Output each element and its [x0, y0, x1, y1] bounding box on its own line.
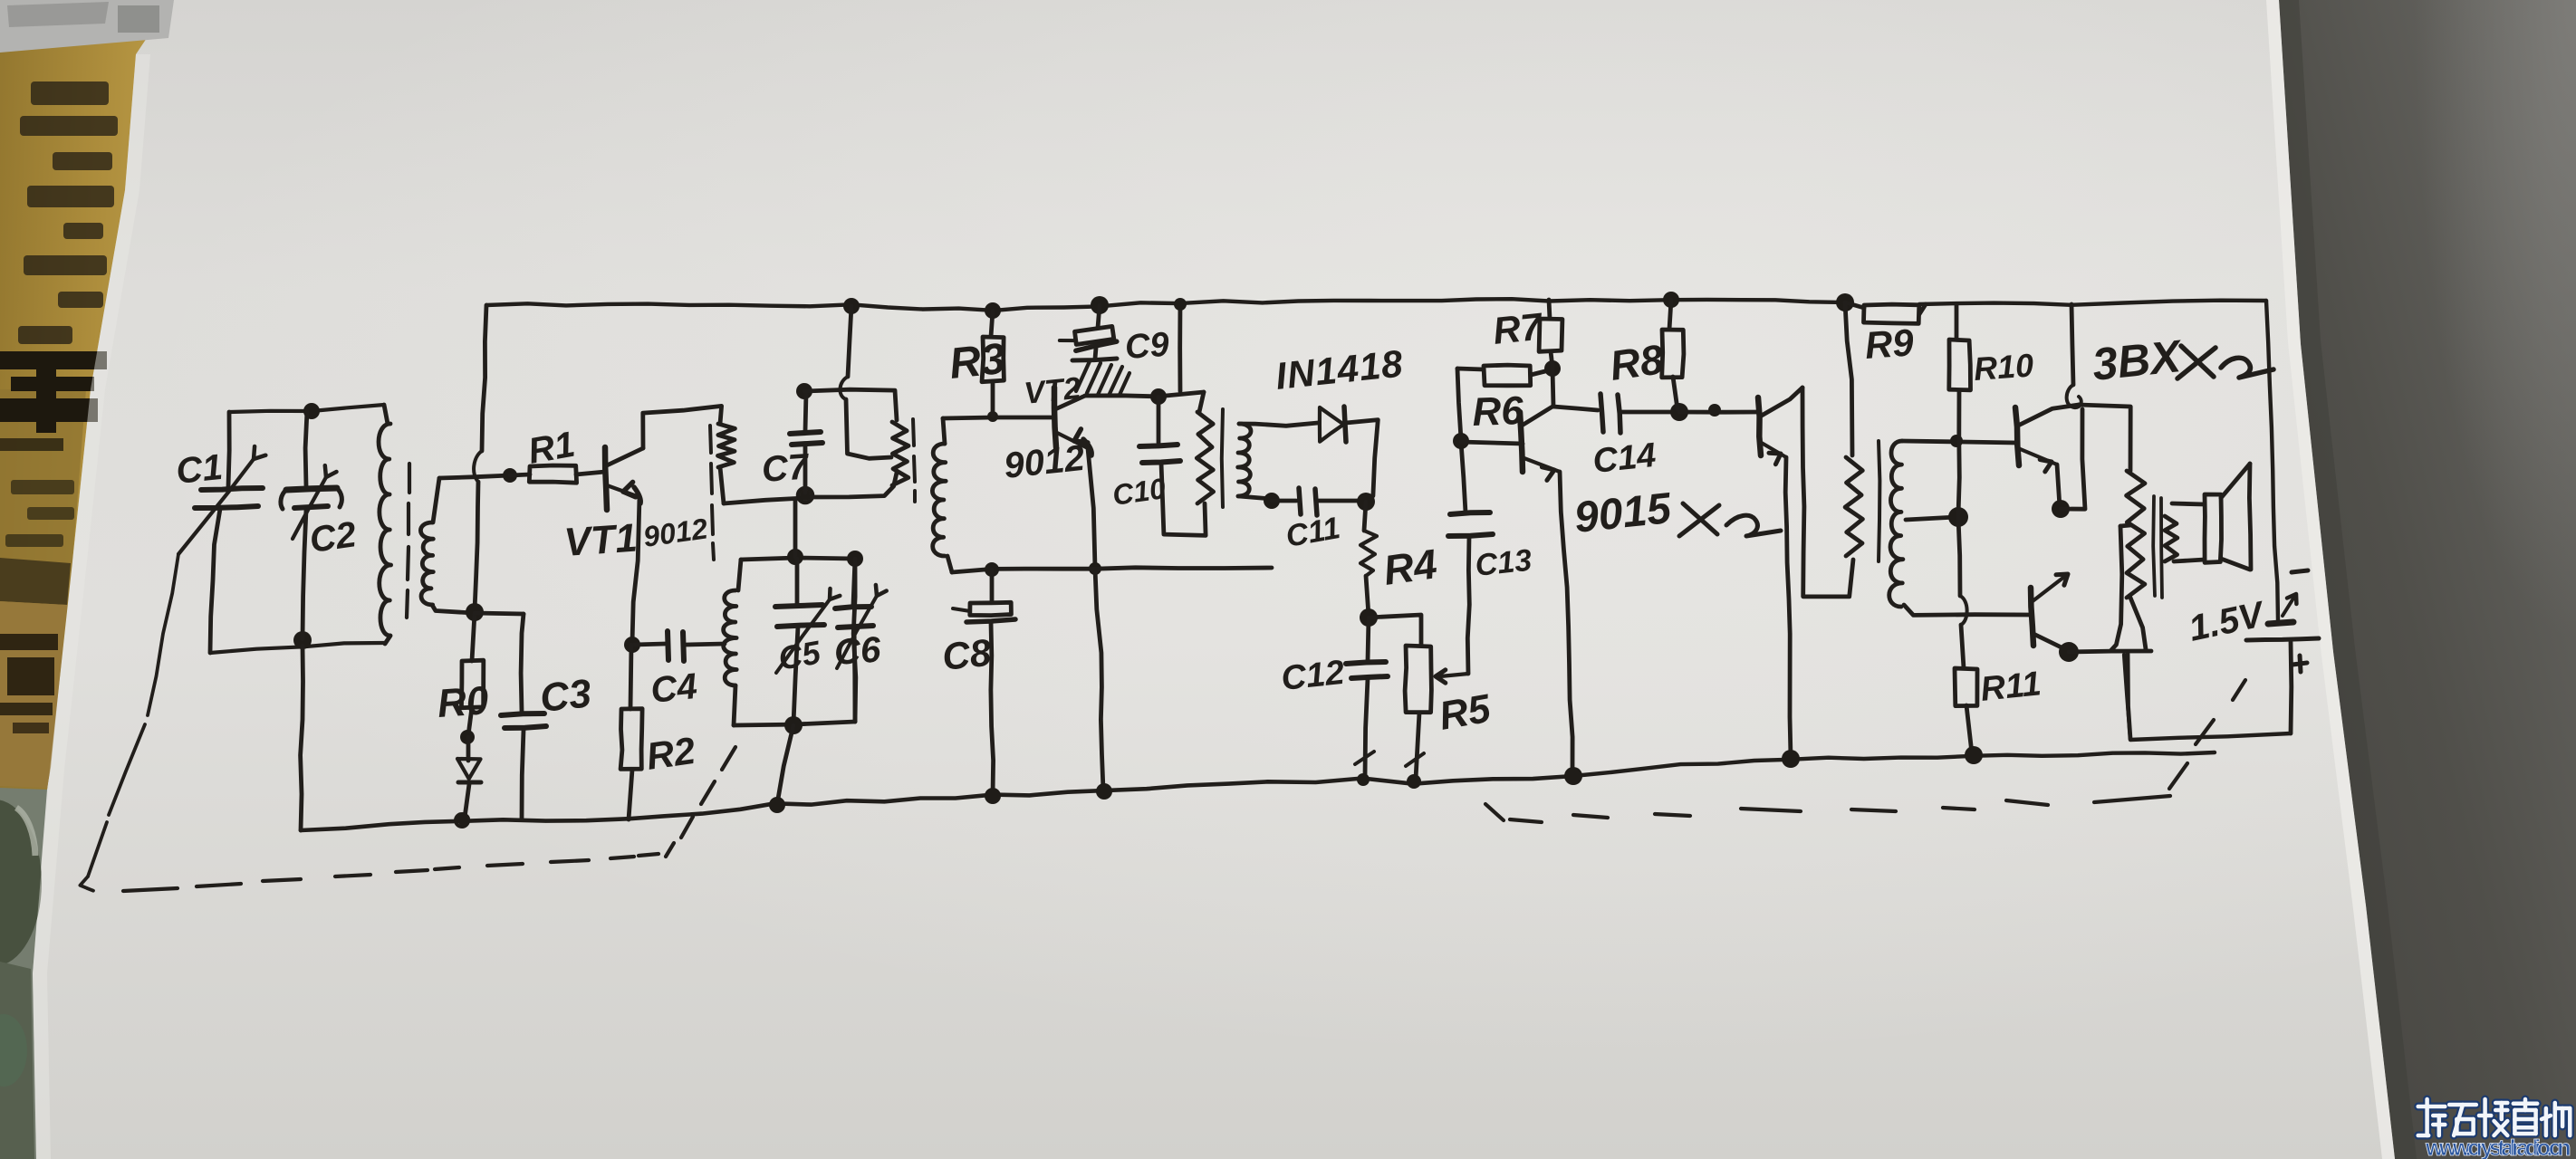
label C5: [775, 633, 823, 677]
svg-text:VT1: VT1: [562, 515, 639, 565]
resistor R6 and base network: [1453, 360, 1561, 449]
potentiometer R5: [1405, 646, 1431, 789]
module boundary diagonal dashes (left of oscillator): [681, 747, 735, 838]
inductor T3 primary (zigzag): [1197, 392, 1213, 503]
svg-text:R6: R6: [1472, 388, 1524, 435]
wire box bottom to ground bus: [769, 725, 793, 813]
capacitor C7: [790, 383, 822, 493]
wire Q4 emitter to ground: [1782, 457, 1800, 768]
transistor Q4 driver (9015): [1758, 388, 1802, 465]
label C7: [761, 446, 812, 490]
capacitor C4: [634, 631, 725, 661]
svg-text:R5: R5: [1436, 686, 1494, 739]
resistor R2: [620, 645, 642, 819]
wire T3 secondary top to diode: [1239, 423, 1318, 426]
diode D0: [456, 737, 481, 827]
wire push-pull bottom node: [2059, 642, 2151, 662]
wire T4 center tap: [1906, 507, 1968, 527]
wire T3 secondary bottom: [1239, 493, 1280, 509]
wire right rail down to battery: [2266, 301, 2278, 621]
resistor R1: [439, 465, 605, 483]
ground symbol for C9: [1072, 359, 1129, 396]
svg-text:3BX: 3BX: [2090, 330, 2185, 390]
capacitor C5 (variable trimmer): [775, 559, 840, 723]
label VT2: [1023, 371, 1082, 411]
inductor T1 collector winding (zigzag): [718, 424, 735, 503]
inductor L1a antenna coil primary: [379, 424, 391, 644]
capacitor C8 (electrolytic): [953, 570, 1015, 804]
svg-text:VT2: VT2: [1023, 371, 1082, 411]
svg-text:C6: C6: [833, 629, 883, 673]
inductor T2 secondary winding: [932, 444, 946, 556]
wire VT2 collector line: [1085, 388, 1204, 405]
svg-text:R2: R2: [644, 729, 698, 778]
wire C7 box top: [804, 389, 897, 420]
label R9: [1863, 321, 1915, 367]
label C14: [1591, 436, 1658, 481]
label C3: [538, 671, 593, 721]
svg-text:R1: R1: [525, 425, 578, 472]
transformer T1 core (dashed): [407, 464, 409, 618]
wire Q3 emitter to ground: [1560, 472, 1582, 785]
svg-text:C7: C7: [761, 446, 812, 490]
wire battery positive bottom wire: [2130, 733, 2291, 740]
inductor L1b antenna coil secondary: [420, 522, 433, 605]
svg-text:R9: R9: [1863, 321, 1915, 367]
wire center tap down with hop to R11: [1958, 517, 1967, 668]
svg-text:R7: R7: [1491, 304, 1545, 352]
capacitor C10: [1139, 397, 1206, 535]
label 3BXX2: [2090, 330, 2273, 390]
label R2: [644, 729, 698, 778]
wire C1/C2 box bottom: [210, 631, 384, 653]
svg-text:R3: R3: [947, 335, 1008, 388]
resistor R0: [460, 613, 484, 744]
wire secondary top link from R1 wire: [433, 478, 439, 522]
label 9012 of VT1: [641, 512, 710, 553]
resistor R4 (squiggle): [1360, 502, 1378, 627]
wire T4 secondary bottom hook to Q6 base: [1904, 605, 2031, 615]
svg-text:R0: R0: [436, 678, 490, 726]
wire riser from push-pull emitters to battery wire: [2124, 655, 2130, 740]
diode D1 IN1418: [1320, 407, 1378, 501]
capacitor C3: [475, 613, 546, 819]
label R5: [1436, 686, 1494, 739]
wire Q5 collector to T5 top: [2079, 405, 2130, 471]
wire secondary bottom to junction: [432, 605, 474, 613]
wire box bottom-left drop to ground bus: [301, 646, 303, 830]
transistor VT2 (9012): [1054, 388, 1091, 455]
wire T4 secondary top hook to Q5 base: [1902, 435, 2017, 447]
wire bottom node down to battery wire: [2128, 654, 2130, 739]
svg-text:R11: R11: [1979, 665, 2043, 709]
label 1.5V: [2186, 594, 2270, 649]
resistor R7: [1539, 300, 1562, 368]
label 9012 of VT2: [1002, 438, 1086, 486]
resistor R9 (in supply bus): [1836, 293, 1926, 323]
svg-text:R10: R10: [1973, 346, 2035, 388]
wire oscillator box top: [741, 549, 863, 567]
svg-text:www.crystalradio.cn: www.crystalradio.cn: [2425, 1135, 2571, 1159]
label C9: [1124, 326, 1170, 367]
wire R4 to R5 link: [1369, 615, 1421, 646]
inductor T5 primary (zigzag): [2127, 471, 2146, 649]
svg-text:R4: R4: [1380, 540, 1439, 594]
label C6: [833, 629, 883, 673]
transformer T3 core: [1222, 409, 1223, 507]
wiper arrow into R5: [1436, 670, 1468, 683]
wire C7 bottom rail: [724, 473, 897, 503]
wire VT2 base line: [943, 411, 1053, 422]
capacitor C11: [1272, 488, 1375, 515]
svg-text:R8: R8: [1607, 335, 1667, 389]
module boundary dashed line (bottom right): [1485, 680, 2245, 822]
capacitor C14: [1553, 394, 1758, 433]
svg-text:C1: C1: [174, 447, 224, 492]
resistor R8: [1662, 292, 1684, 409]
module boundary dashes (vertical near T1): [710, 426, 714, 560]
wire oscillator box bottom: [734, 716, 855, 734]
wire top supply bus (left section): [486, 299, 1845, 311]
label R4: [1380, 540, 1439, 594]
transistor Q3 (9015): [1520, 369, 1560, 480]
svg-text:C9: C9: [1124, 326, 1170, 367]
inductor T4 primary (zigzag): [1845, 457, 1862, 556]
svg-text:C4: C4: [649, 666, 698, 711]
resistor R3: [982, 302, 1004, 416]
label C4: [649, 666, 698, 711]
capacitor C6 (variable trimmer): [835, 559, 887, 722]
wire bus tap to collector line: [1174, 298, 1187, 391]
label R3: [947, 335, 1008, 388]
svg-text:C12: C12: [1280, 654, 1347, 698]
svg-text:C14: C14: [1591, 436, 1658, 481]
label VT1: [562, 515, 639, 565]
transistor Q5 (3BX output top): [2015, 405, 2079, 472]
inductor T5 secondary (zigzag): [2165, 516, 2177, 561]
wire V+ drop with hop over R1 wire: [466, 305, 486, 621]
inductor T4 secondary (two halves): [1889, 441, 1903, 607]
wire top supply bus (right section after R9): [1919, 301, 2266, 305]
wire bus down to T4 primary: [1845, 302, 1852, 455]
svg-text:C2: C2: [307, 514, 359, 560]
svg-text:9015: 9015: [1572, 484, 1675, 542]
svg-text:C8: C8: [940, 631, 994, 678]
transformer T4 core: [1879, 441, 1879, 561]
capacitor C2 (variable): [281, 411, 341, 639]
wire oscillator box right side: [853, 559, 856, 722]
resistor R11: [1955, 668, 1983, 764]
resistor R10: [1949, 304, 1971, 515]
wire T2 secondary bottom corner: [947, 556, 952, 572]
wire bus tap with hop to oscillator feedback: [840, 298, 891, 458]
transistor VT1 (9012): [605, 447, 643, 510]
wire Q5 emitter down: [2052, 465, 2070, 518]
transistor Q6 (3BX output bottom): [2031, 574, 2068, 650]
wire link up from box to C7 rail: [793, 499, 798, 557]
svg-text:C13: C13: [1474, 543, 1533, 583]
transformer T5 core: [2153, 496, 2162, 598]
label C11: [1283, 511, 1343, 554]
wire bus drop to Q5 collector with curl: [2067, 304, 2081, 407]
label C2: [307, 514, 359, 560]
label C8: [940, 631, 994, 678]
label R7: [1491, 304, 1545, 352]
label IN1418: [1274, 341, 1406, 398]
capacitor C12: [1346, 618, 1388, 786]
wire VT2 emitter down to ground: [1088, 448, 1112, 800]
wire T2 secondary top to VT2 base line: [943, 418, 945, 444]
wire emitter node right and up: [2061, 409, 2085, 509]
wire C1/C2 box top: [230, 403, 384, 419]
wire bottom ground bus right part: [1573, 752, 2215, 776]
capacitor C1 (variable): [178, 412, 265, 653]
wire signal rail y630: [952, 562, 1272, 577]
wire VT1 collector to T1 primary: [643, 406, 722, 448]
svg-text:C5: C5: [775, 633, 823, 677]
inductor T3 secondary: [1238, 424, 1251, 496]
antenna lead-in diagonal: [80, 554, 178, 891]
wire Q4 collector loop to T4 bottom: [1802, 388, 1853, 597]
inductor L2 oscillator coil: [724, 560, 741, 725]
label 9015x2: [1572, 484, 1781, 542]
label R6: [1472, 388, 1524, 435]
label R0: [436, 678, 490, 726]
svg-text:C3: C3: [538, 671, 593, 721]
label R1: [525, 425, 578, 472]
label R10: [1973, 346, 2035, 388]
wire T5 center tap vertical: [2110, 525, 2130, 651]
svg-text:9012: 9012: [1002, 438, 1086, 486]
inductor T1 base winding (zigzag): [892, 422, 908, 485]
wire VT1 emitter down: [624, 497, 640, 653]
label C12: [1280, 654, 1347, 698]
capacitor C13: [1448, 442, 1493, 674]
speaker: [2172, 464, 2251, 570]
label R8: [1607, 335, 1667, 389]
wire corner down to antenna coil: [384, 405, 388, 424]
battery B1 1.5V: [2246, 570, 2319, 733]
label C13: [1474, 543, 1533, 583]
label C1: [174, 447, 224, 492]
label C10: [1110, 472, 1168, 512]
wire bottom ground bus: [301, 776, 1573, 830]
capacitor C9 (electrolytic, to ground): [1059, 296, 1118, 359]
label R11: [1979, 665, 2043, 709]
watermark crystalradio.cn: [2418, 1099, 2571, 1159]
module boundary dashed line (bottom left): [123, 843, 674, 891]
transformer T2 core (dashed): [913, 419, 915, 502]
